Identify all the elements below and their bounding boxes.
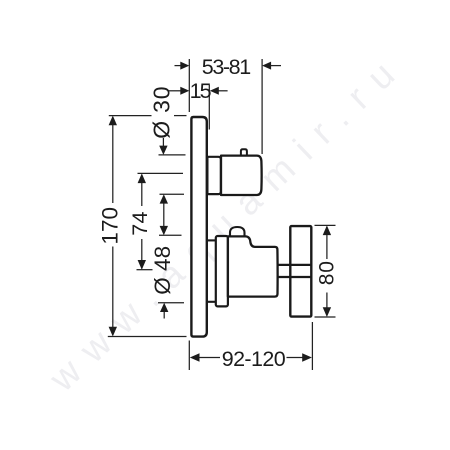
svg-text:92-120: 92-120: [222, 347, 286, 371]
arrow 80 bottom: [323, 307, 331, 317]
svg-text:80: 80: [316, 260, 339, 285]
arrow 74 top: [138, 173, 146, 183]
wall plate: [191, 117, 206, 337]
74 bottom extension: [137, 269, 153, 271]
lower neck line bottom: [207, 301, 216, 303]
arrow mid up (O30 bottom): [160, 194, 168, 203]
O30 bottom tick: [160, 193, 185, 195]
74 top extension: [138, 172, 184, 174]
170 bottom extension line: [108, 336, 187, 338]
svg-text:15: 15: [190, 79, 212, 103]
watermark www.aquamir.ru: [41, 41, 417, 401]
arrow 15 left: [180, 87, 189, 95]
arrow mid down (O48 top): [160, 226, 168, 235]
dimension graphics: [108, 59, 336, 370]
ext line right of 53-81: [261, 59, 263, 154]
thermostat collar (upper sleeve): [207, 157, 221, 194]
arrow 92-120 left: [190, 353, 200, 361]
O30 top tick: [159, 154, 186, 156]
O48 top tick: [159, 234, 182, 236]
lower neck line top: [207, 239, 216, 241]
92-120 dim line: [198, 357, 220, 359]
svg-text:53-81: 53-81: [202, 55, 250, 79]
53-81 dim line tails: [175, 65, 184, 67]
dome button on lower valve: [230, 227, 245, 238]
74 dim line: [141, 175, 143, 206]
O48 bottom tick: [158, 302, 184, 304]
handle stem line top: [278, 264, 311, 266]
arrow 15 right: [210, 87, 219, 95]
arrow 170 top: [109, 116, 117, 126]
arrow O48 up: [160, 303, 168, 312]
80 bottom extension: [315, 316, 336, 318]
arrow 74 bottom: [138, 260, 146, 270]
handle stem line bottom: [278, 276, 311, 278]
arrow 170 bottom: [109, 327, 117, 337]
lower valve body: [228, 236, 278, 296]
15 dim line tails: [169, 90, 184, 92]
arrow 53-81 left: [180, 62, 189, 70]
cross handle bar: [290, 226, 311, 317]
arrow 80 top: [323, 225, 331, 235]
lower collar (48 sleeve): [216, 236, 228, 306]
shared shaft between O30 and O48: [163, 202, 165, 229]
O48 lower arrow shaft: [163, 310, 165, 319]
80 dim line: [326, 227, 328, 259]
svg-text:Ø 30: Ø 30: [149, 86, 175, 139]
O30 upper arrow shaft: [162, 138, 164, 147]
thermostat knob U-shape: [221, 156, 262, 195]
button on thermostat knob: [241, 149, 247, 156]
92-120 right extension: [311, 322, 313, 370]
ext line left of 53-81 and 15: [188, 59, 190, 112]
170 dim line: [112, 117, 114, 203]
svg-text:74: 74: [128, 211, 152, 236]
arrow O30 down: [159, 146, 167, 155]
svg-text:170: 170: [97, 207, 122, 245]
arrow 53-81 right: [262, 62, 271, 70]
ext line right of 15: [208, 85, 210, 130]
svg-text:Ø 48: Ø 48: [150, 246, 175, 295]
170 top extension line: [109, 115, 152, 117]
92-120 left extension: [188, 341, 190, 371]
80 top extension: [315, 224, 336, 226]
arrow 92-120 right: [302, 353, 312, 361]
